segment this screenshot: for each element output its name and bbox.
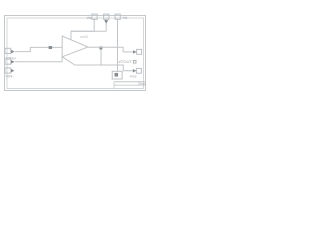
block R1 (lower right box with dark core): [112, 71, 122, 79]
pin VINP (input port, left): [5, 48, 15, 53]
title block table: [114, 82, 146, 89]
pin VOUT (output port, right): [133, 49, 142, 54]
svg-text:net01: net01: [80, 35, 89, 39]
svg-text:2/res: 2/res: [138, 82, 146, 86]
pin VINM (input port, left middle): [5, 59, 15, 64]
pin VINN (input port, left lower): [5, 68, 14, 73]
svg-text:-Vss: -Vss: [86, 16, 92, 20]
svg-text:+Vdd: +Vdd: [121, 16, 127, 20]
pin VDD (top power pin box): [115, 14, 120, 19]
op-amp U1: [62, 36, 88, 57]
pin VSS (top power pin box): [92, 14, 97, 19]
wire VDD from top pin down to lower block: [117, 19, 119, 65]
wire feedback vertical from output node: [100, 47, 102, 65]
wire from port VINM to inverting node: [15, 57, 62, 62]
wire input from port VINP: [15, 47, 62, 51]
pin RES (output port, right lower): [133, 68, 142, 73]
svg-text:+res: +res: [129, 75, 137, 79]
svg-text:VIN-: VIN-: [6, 74, 15, 78]
node OUT junction dot: [99, 46, 102, 49]
wire stub rail to block R1: [117, 65, 119, 71]
sheet border outer: [5, 16, 146, 91]
wire output to port VOUT: [88, 47, 133, 52]
svg-text:#TOUT: #TOUT: [119, 60, 133, 64]
wire rail segment: [71, 30, 106, 32]
wire feedback diagonal from triangle corner: [62, 57, 132, 71]
sheet border inner: [7, 18, 144, 89]
node IN junction blob: [49, 46, 53, 49]
wire VSS rail to op-amp top: [71, 19, 94, 40]
pin GND (top middle pin box with down arrow): [104, 14, 109, 24]
wire from middle top pin to rail: [105, 24, 107, 31]
